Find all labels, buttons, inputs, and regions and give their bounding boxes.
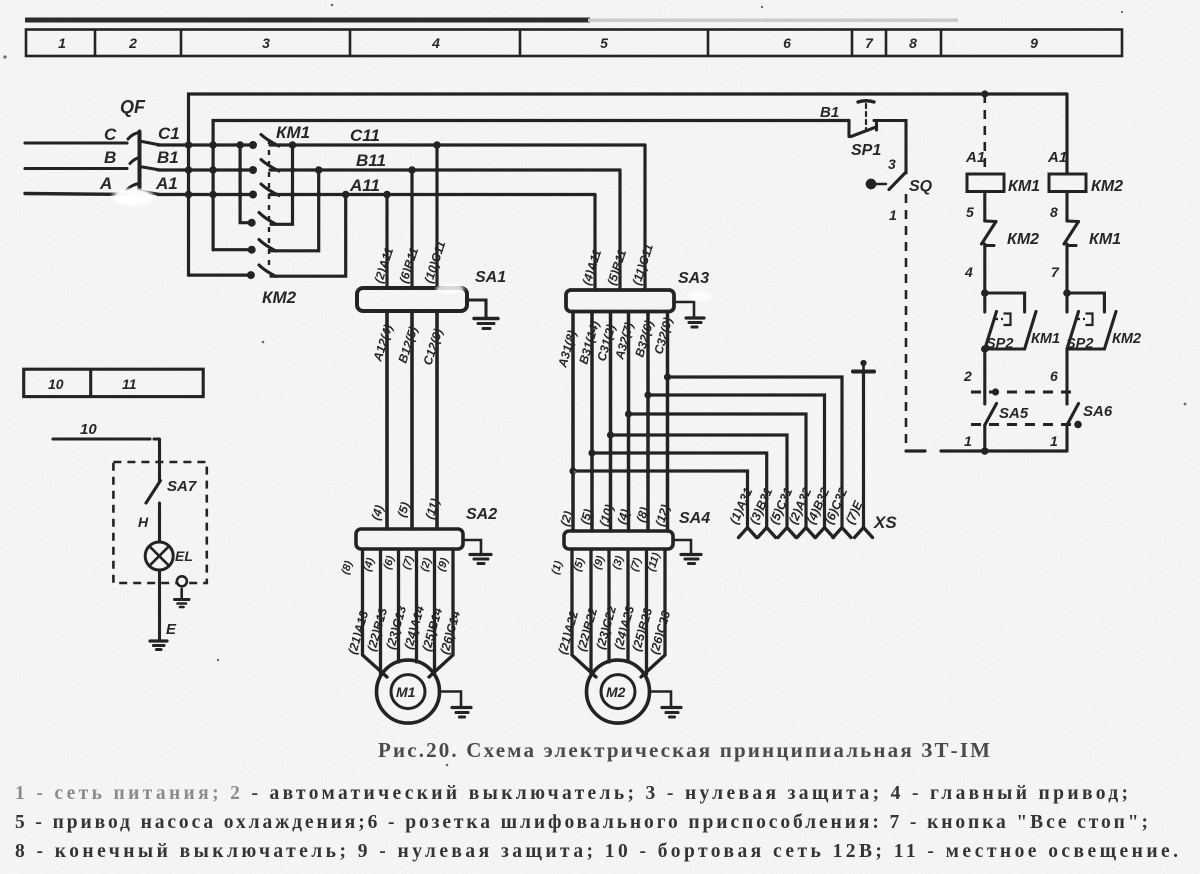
switch SA2 bar xyxy=(356,529,463,549)
svg-text:6: 6 xyxy=(1050,368,1058,384)
XS pin 2 arrow xyxy=(797,528,815,538)
wire A32 xyxy=(627,312,631,532)
wire C11 down to SA3 xyxy=(643,145,646,290)
svg-text:4: 4 xyxy=(431,35,440,51)
KM2 row2 approach xyxy=(213,248,252,251)
mechanical linkage dashed xyxy=(268,139,270,271)
svg-text:М2: М2 xyxy=(606,684,626,700)
wire C32 to XS pin 6 xyxy=(668,377,843,527)
wire below lamp xyxy=(158,570,161,640)
start block left: SP2 with KM1 aux xyxy=(985,293,1036,392)
dashed feed to KM1 coil xyxy=(983,94,986,174)
rotated cable labels M1 xyxy=(345,604,463,656)
coil KM1 xyxy=(967,174,1004,192)
phase B input wire xyxy=(25,167,127,170)
interlock contact KM2 (NC) left branch xyxy=(982,221,997,293)
wire B row to SA1 xyxy=(410,170,413,288)
socket with ground xyxy=(175,576,190,607)
coil KM2 xyxy=(1049,174,1086,192)
ground M2 xyxy=(649,692,681,718)
wires SA3 to SA4 xyxy=(573,312,668,532)
bus H2 xyxy=(213,121,849,250)
bus H1 top xyxy=(189,94,1068,275)
XS pin 5 arrow xyxy=(778,528,796,538)
KM2 row1 output up to C11 xyxy=(271,145,293,224)
svg-text:4: 4 xyxy=(964,264,973,280)
wire A31 to XS pin 1 xyxy=(573,471,748,527)
ground SA4 xyxy=(673,540,701,564)
XS pin 4 arrow xyxy=(816,528,834,538)
svg-text:КМ1: КМ1 xyxy=(1031,331,1060,347)
wire C31 xyxy=(609,312,613,532)
contactor KM2 main contacts (blades) xyxy=(259,213,276,277)
phase C input wire xyxy=(25,141,127,144)
interlock contact KM1 (NC) right branch xyxy=(1064,221,1079,293)
svg-text:1: 1 xyxy=(964,433,972,449)
junction dots left block xyxy=(185,141,441,279)
wire row A1/A11 xyxy=(158,193,253,196)
wire B31 to XS pin 3 xyxy=(592,453,767,527)
svg-text:КМ2: КМ2 xyxy=(1091,178,1123,195)
rotated labels above SA4 xyxy=(558,503,673,528)
svg-text:EL: EL xyxy=(175,548,193,564)
svg-text:С11: С11 xyxy=(350,126,380,145)
svg-text:SP2: SP2 xyxy=(1066,336,1093,352)
svg-text:9: 9 xyxy=(1030,35,1038,51)
svg-text:6: 6 xyxy=(783,35,791,51)
svg-text:8: 8 xyxy=(1050,204,1058,220)
wire B31 xyxy=(590,312,594,532)
motor M1 xyxy=(377,660,440,723)
wire C31 to XS pin 5 xyxy=(611,435,788,527)
svg-text:5: 5 xyxy=(966,204,974,220)
wire row C1/C11 xyxy=(158,143,253,146)
wire A11 down to SA3 xyxy=(593,195,596,291)
svg-text:A1: A1 xyxy=(155,174,178,193)
svg-text:C1: C1 xyxy=(158,124,180,143)
svg-text:10: 10 xyxy=(80,421,97,438)
svg-text:3: 3 xyxy=(888,156,896,172)
rotated cable labels M2 xyxy=(555,604,673,656)
svg-text:3: 3 xyxy=(262,35,270,51)
svg-text:КМ2: КМ2 xyxy=(1007,231,1039,248)
header box 10 11 xyxy=(24,369,204,396)
wire B32 xyxy=(646,312,650,532)
rotated wire labels above SA1 xyxy=(372,239,449,285)
KM2 row3 output up to A11 xyxy=(271,195,346,277)
junction dots on SA3-SA4 wires xyxy=(569,373,671,474)
svg-text:КМ1: КМ1 xyxy=(1089,231,1121,248)
rotated cable labels below SA3 xyxy=(555,316,675,370)
svg-text:XS: XS xyxy=(873,513,897,532)
header strip frame xyxy=(26,30,1122,57)
svg-text:SP2: SP2 xyxy=(986,336,1013,352)
motor M1 feeder funnel xyxy=(363,549,454,677)
KM2 row2 output up to B11 xyxy=(271,170,319,251)
XS pin 7 arrow xyxy=(855,528,873,538)
svg-text:М1: М1 xyxy=(396,684,416,700)
svg-text:B: B xyxy=(104,148,116,167)
wire C12 xyxy=(435,311,439,529)
XS pin 6 arrow xyxy=(833,528,851,538)
ground E xyxy=(150,641,167,650)
lamp EL xyxy=(145,542,173,570)
contactor KM1 main contacts (blades) xyxy=(261,135,279,196)
XS pin 3 arrow xyxy=(758,528,776,538)
svg-text:1: 1 xyxy=(1050,433,1058,449)
svg-text:КМ2: КМ2 xyxy=(262,288,297,307)
switch SA7 xyxy=(146,462,161,542)
wire A12 xyxy=(385,311,389,529)
svg-text:1: 1 xyxy=(889,207,897,223)
svg-text:SP1: SP1 xyxy=(851,142,881,159)
wires below coils xyxy=(985,192,1067,222)
svg-text:SA5: SA5 xyxy=(999,405,1029,422)
svg-text:7: 7 xyxy=(865,35,874,51)
wire A31 xyxy=(571,312,575,532)
svg-text:КМ1: КМ1 xyxy=(1008,178,1040,195)
svg-text:Е: Е xyxy=(166,621,177,638)
socket XS arrows xyxy=(739,528,873,538)
svg-text:SA4: SA4 xyxy=(679,510,710,527)
wire A32 to XS pin 2 xyxy=(629,414,807,527)
switch SA3 bar xyxy=(566,290,674,312)
svg-text:8 - конечный выключатель; 9 -: 8 - конечный выключатель; 9 - нулевая за… xyxy=(15,841,1178,862)
svg-text:1: 1 xyxy=(58,35,66,51)
svg-text:КМ2: КМ2 xyxy=(1112,331,1141,347)
motor M2 xyxy=(587,660,650,723)
ground SA1 xyxy=(467,300,498,329)
right branch solid from H1 corner xyxy=(1065,94,1068,174)
wires SA1 to SA2 xyxy=(387,311,437,529)
wire B12 xyxy=(410,311,414,529)
svg-text:А1: А1 xyxy=(1047,149,1067,166)
XS pin 1 arrow xyxy=(739,528,757,538)
ground SA2 xyxy=(463,540,491,564)
svg-text:Н: Н xyxy=(138,514,149,530)
switch SA6 xyxy=(1067,392,1079,451)
button head SP2 right xyxy=(1077,314,1093,326)
svg-text:А1: А1 xyxy=(965,149,985,166)
svg-text:SQ: SQ xyxy=(909,178,933,195)
svg-text:5: 5 xyxy=(600,35,608,51)
wire row B1/B11 xyxy=(158,168,253,171)
header cell numbers xyxy=(58,35,1038,51)
wire C32 xyxy=(666,312,670,532)
dashed tie row upper xyxy=(971,390,1078,393)
svg-text:2: 2 xyxy=(963,368,972,384)
bottom rail xyxy=(906,449,1067,452)
switch SA5 xyxy=(985,392,997,451)
switch SA4 bar xyxy=(564,531,673,549)
wire B11 down to SA3 xyxy=(618,170,621,290)
svg-text:SA1: SA1 xyxy=(475,269,506,286)
dashed tie row lower xyxy=(971,423,1072,426)
wire B32 to XS pin 4 xyxy=(648,395,825,527)
top scan bar xyxy=(25,18,590,23)
wire C row to SA1 xyxy=(435,145,438,288)
svg-text:11: 11 xyxy=(122,376,137,392)
svg-text:10: 10 xyxy=(48,376,64,392)
labels QF area xyxy=(99,97,180,193)
svg-text:A: A xyxy=(99,174,112,193)
start block right: SP2 with KM2 aux xyxy=(1067,293,1116,392)
button SP1 (NC) xyxy=(849,101,906,173)
svg-text:7: 7 xyxy=(1051,264,1060,280)
svg-text:2: 2 xyxy=(128,35,137,51)
svg-text:C: C xyxy=(104,125,117,144)
motor M2 feeder funnel xyxy=(572,549,665,677)
dashed enclosure xyxy=(113,462,206,583)
small labels above SA2 xyxy=(369,497,443,522)
switch SQ xyxy=(867,172,906,190)
svg-text:5 - привод насоса охлаждения;6: 5 - привод насоса охлаждения;6 - розетка… xyxy=(15,812,1148,833)
dashed drop from SQ to rail xyxy=(905,194,908,451)
svg-text:А11: А11 xyxy=(349,176,380,195)
scan white-out artifacts xyxy=(109,187,157,207)
svg-text:В11: В11 xyxy=(356,151,386,170)
KM2 row3 approach xyxy=(189,274,251,277)
rotated wire labels below SA1 xyxy=(370,323,445,367)
svg-text:В1: В1 xyxy=(820,104,839,121)
junction on H1 xyxy=(981,90,988,97)
earth wire E with chassis symbol xyxy=(853,360,874,527)
svg-text:SA3: SA3 xyxy=(678,270,709,287)
labels KM block xyxy=(262,123,386,307)
small pin labels below SA2 xyxy=(339,554,451,576)
ground M1 xyxy=(439,692,471,718)
ground SA3 xyxy=(674,302,704,327)
svg-text:B1: B1 xyxy=(157,148,179,167)
small pin labels below SA4 xyxy=(549,551,662,576)
taps to socket XS xyxy=(573,377,842,527)
svg-text:КМ1: КМ1 xyxy=(276,123,310,142)
wire A row to SA1 xyxy=(385,195,388,289)
svg-text:SA6: SA6 xyxy=(1083,403,1113,420)
rotated labels above SA3 xyxy=(580,242,657,287)
svg-text:SA2: SA2 xyxy=(466,506,497,523)
button head SP2 left xyxy=(995,314,1011,326)
phase A input wire xyxy=(25,194,137,195)
wire Va C1 tap down xyxy=(240,145,252,223)
svg-text:SA7: SA7 xyxy=(167,478,197,495)
svg-text:8: 8 xyxy=(909,35,917,51)
breaker QF xyxy=(127,132,161,195)
rotated labels XS pins xyxy=(727,486,866,527)
switch SA1 bar xyxy=(357,288,467,311)
svg-text:QF: QF xyxy=(120,97,146,117)
